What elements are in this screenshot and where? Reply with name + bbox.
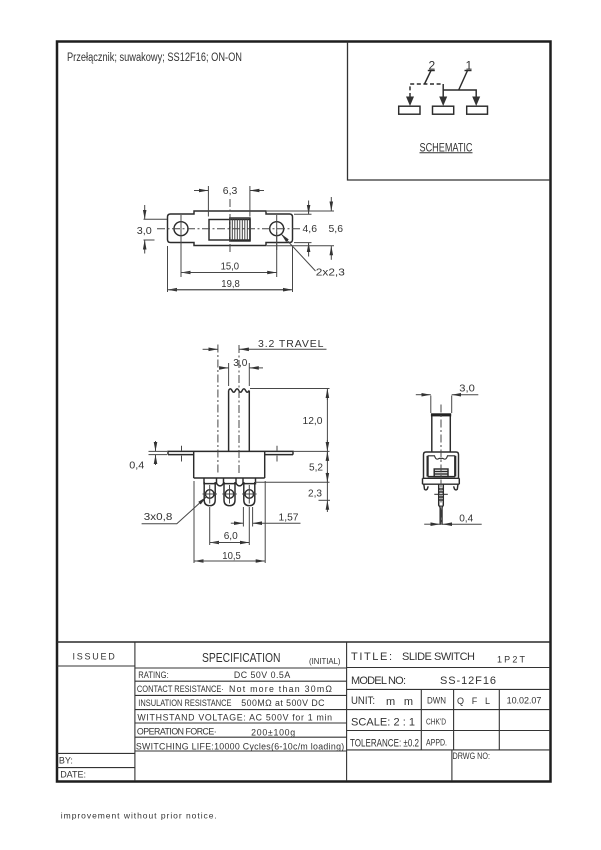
svg-text:500MΩ at 500V DC: 500MΩ at 500V DC	[241, 698, 325, 708]
svg-text:15,0: 15,0	[221, 261, 240, 273]
svg-text:WITHSTAND VOLTAGE: AC 500V for: WITHSTAND VOLTAGE: AC 500V for 1 min	[137, 713, 332, 723]
svg-text:2x2,3: 2x2,3	[316, 267, 345, 279]
svg-text:TITLE:: TITLE:	[351, 651, 392, 663]
svg-text:SWITCHING LIFE:10000 Cycles(6-: SWITCHING LIFE:10000 Cycles(6-10c/m load…	[136, 742, 344, 752]
svg-text:TOLERANCE: ±0.2: TOLERANCE: ±0.2	[350, 738, 419, 750]
svg-text:CHK'D: CHK'D	[426, 718, 446, 727]
svg-text:Q F L: Q F L	[457, 696, 490, 706]
svg-text:0,4: 0,4	[129, 460, 144, 472]
svg-text:3,0: 3,0	[459, 383, 475, 395]
svg-text:10,5: 10,5	[222, 550, 241, 562]
svg-text:4,6: 4,6	[303, 223, 318, 235]
svg-text:3x0,8: 3x0,8	[144, 511, 173, 523]
svg-text:INSULATION RESISTANCE: INSULATION RESISTANCE	[138, 698, 231, 708]
svg-text:5,2: 5,2	[309, 462, 323, 474]
svg-text:1P2T: 1P2T	[497, 655, 526, 665]
svg-text:Przełącznik; suwakowy; SS12F16: Przełącznik; suwakowy; SS12F16; ON-ON	[67, 52, 242, 64]
svg-text:DWN: DWN	[427, 696, 446, 706]
svg-text:3.2 TRAVEL: 3.2 TRAVEL	[258, 338, 324, 350]
svg-text:2: 2	[429, 59, 436, 73]
svg-text:6,3: 6,3	[223, 185, 238, 197]
svg-text:3,0: 3,0	[137, 225, 152, 237]
svg-text:m m: m m	[386, 696, 413, 708]
svg-text:CONTACT RESISTANCE·: CONTACT RESISTANCE·	[137, 684, 224, 694]
svg-text:200±100g: 200±100g	[251, 727, 295, 737]
svg-text:2,3: 2,3	[308, 488, 322, 500]
svg-text:6,0: 6,0	[224, 530, 238, 542]
svg-text:RATING:: RATING:	[138, 670, 168, 680]
svg-text:OPERATION FORCE·: OPERATION FORCE·	[137, 726, 217, 736]
svg-text:DRWG NO:: DRWG NO:	[453, 751, 491, 761]
svg-text:1,57: 1,57	[279, 512, 299, 524]
svg-text:3,0: 3,0	[233, 357, 247, 369]
svg-text:19,8: 19,8	[221, 278, 240, 290]
svg-text:SS-12F16: SS-12F16	[440, 675, 496, 687]
svg-text:0,4: 0,4	[459, 513, 473, 525]
svg-text:SLIDE SWITCH: SLIDE SWITCH	[402, 651, 475, 663]
svg-text:SPECIFICATION: SPECIFICATION	[202, 651, 281, 665]
svg-text:Not more than 30mΩ: Not more than 30mΩ	[229, 684, 332, 694]
svg-text:12,0: 12,0	[303, 415, 323, 427]
svg-text:UNIT:: UNIT:	[351, 695, 375, 707]
svg-text:DATE:: DATE:	[60, 770, 86, 780]
svg-text:MODEL NO:: MODEL NO:	[351, 675, 406, 687]
svg-text:DC 50V 0.5A: DC 50V 0.5A	[234, 670, 290, 680]
svg-text:5,6: 5,6	[329, 223, 344, 235]
svg-text:1: 1	[466, 59, 473, 73]
svg-text:improvement without prior noti: improvement without prior notice.	[61, 811, 217, 821]
svg-text:SCALE: 2 : 1: SCALE: 2 : 1	[351, 717, 415, 729]
svg-text:ISSUED: ISSUED	[73, 652, 116, 662]
svg-text:BY:: BY:	[59, 756, 73, 766]
svg-text:(INITIAL): (INITIAL)	[309, 656, 341, 666]
svg-text:10.02.07: 10.02.07	[507, 696, 542, 706]
svg-text:APPD.: APPD.	[426, 738, 447, 748]
